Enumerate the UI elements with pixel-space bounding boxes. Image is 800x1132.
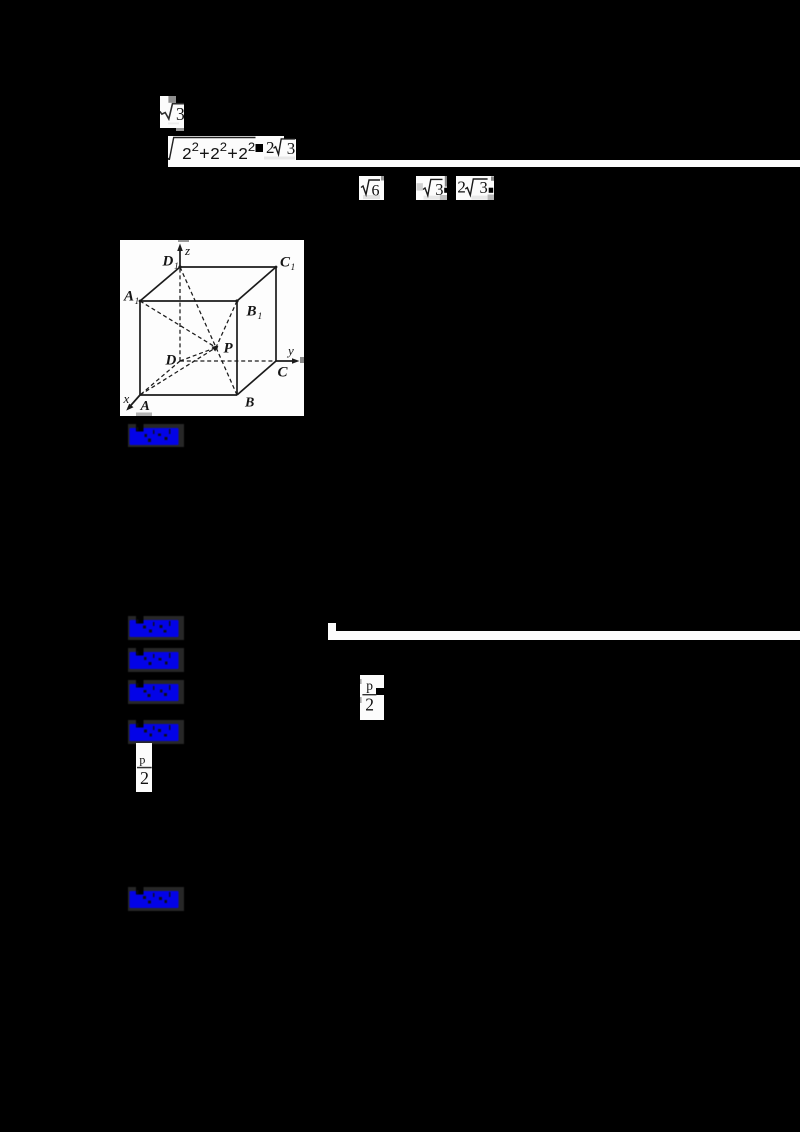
answer label 5 (128, 720, 184, 744)
svg-text:B: B (244, 396, 254, 411)
svg-text:2: 2 (248, 140, 256, 155)
svg-text:D: D (165, 353, 177, 369)
x arrowhead (126, 404, 133, 411)
cube edge A1-B1 (140, 300, 237, 302)
cube edge B-C (237, 361, 276, 395)
answer label 2 (128, 616, 184, 640)
svg-text:p: p (366, 678, 373, 693)
svg-text:3: 3 (176, 104, 184, 124)
answer label 1 (128, 424, 184, 447)
dashed A1-P (140, 301, 216, 348)
hidden edge D-C (180, 360, 276, 362)
vertex dots (178, 265, 181, 268)
dashed B-P (216, 348, 237, 396)
svg-text:3: 3 (435, 180, 443, 199)
y arrowhead (292, 358, 300, 364)
cube edge C-C1 (275, 267, 277, 361)
dashed A-P (140, 348, 216, 396)
white strip under formula row (168, 160, 800, 167)
svg-text:2: 2 (266, 138, 275, 157)
gray artifact above formula row (176, 128, 184, 131)
cube edge C1-D1 (180, 266, 276, 268)
hidden edge D-D1 (179, 267, 181, 361)
white strip in answer row with left notch (328, 623, 336, 640)
gray artifact right edge (300, 357, 304, 363)
gray artifact top edge (178, 240, 189, 242)
svg-text:y: y (286, 343, 294, 358)
formula image: sqrt(2^2+2^2+2^2) = 2 sqrt(3) (168, 136, 296, 167)
svg-text:1: 1 (291, 263, 296, 273)
answer label 6 (128, 887, 184, 911)
cube edge A-A1 (139, 301, 141, 395)
cube edge B-B1 (236, 301, 238, 395)
cube edge D1-A1 (140, 267, 180, 301)
answer label 3 (128, 648, 184, 672)
svg-text:1: 1 (135, 297, 140, 307)
svg-text:A: A (123, 289, 134, 305)
gray artifact bottom-left (136, 413, 152, 417)
svg-text:3: 3 (480, 178, 488, 197)
cube edge B1-C1 (237, 267, 276, 301)
formula image: sqrt(3) (160, 96, 184, 128)
svg-text:C: C (278, 365, 289, 381)
x axis from A (129, 395, 141, 408)
svg-text:B: B (246, 304, 257, 320)
dashed D-P (180, 348, 216, 362)
svg-text:z: z (184, 243, 190, 258)
svg-text:D: D (162, 254, 174, 270)
cube figure (120, 240, 304, 416)
formula image: 2 sqrt(3) small (456, 176, 494, 200)
formula image: sqrt(3) small (416, 176, 447, 200)
svg-text:C: C (280, 255, 291, 271)
svg-text:3: 3 (287, 139, 296, 158)
svg-text:P: P (224, 341, 234, 357)
cube edge A-B (140, 394, 237, 396)
z arrowhead (177, 244, 183, 252)
svg-text:1: 1 (174, 262, 179, 272)
svg-text:2: 2 (140, 768, 149, 788)
formula image: sqrt(6) (359, 176, 384, 200)
svg-text:2: 2 (365, 694, 374, 714)
svg-text:6: 6 (372, 183, 380, 200)
fraction p/2 box 2 (136, 743, 152, 792)
point P dot with arrowhead (214, 346, 218, 350)
y axis from C (276, 360, 296, 362)
answer label 4 (128, 680, 184, 704)
svg-text:2: 2 (457, 178, 466, 197)
svg-text:p: p (139, 752, 145, 766)
z axis from D1 (179, 248, 181, 267)
fraction p/2 box 1 (360, 675, 384, 720)
svg-text:x: x (123, 391, 130, 406)
svg-text:A: A (140, 399, 150, 414)
dashed D1-P (180, 267, 216, 348)
hidden edge D-A (140, 361, 180, 395)
svg-text:1: 1 (258, 312, 263, 322)
dashed B1-P (216, 301, 237, 348)
